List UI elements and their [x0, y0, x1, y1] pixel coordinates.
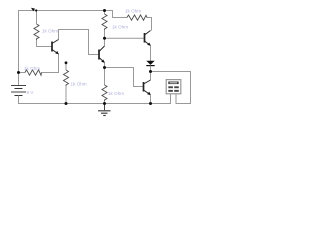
ground [98, 104, 111, 116]
wire: R3 bottom to junction [104, 30, 106, 38]
arrow Q1 emitter [55, 51, 59, 54]
wire: Q2 collector stub [104, 38, 106, 46]
node dot mid junction [103, 37, 106, 40]
wire: top mid jog to R6 [105, 11, 128, 18]
wire: Q3 emitter to diode [150, 46, 152, 62]
svg-text:1k Ohm: 1k Ohm [108, 91, 124, 96]
node dot R4/rail [65, 102, 68, 105]
wire: junction to Q3 base [105, 37, 145, 39]
resistor R1 1k Ohm horizontal [25, 70, 42, 75]
wire: diode to junction [150, 66, 152, 72]
node dot R2/rail/ground [103, 102, 106, 105]
wire: R5 bottom to Q1 base [37, 40, 52, 47]
wire: node to R4 [65, 63, 67, 70]
transistor Q4 [144, 80, 151, 95]
node dot top rail / R3 [103, 9, 106, 12]
arrow Q4 emitter [147, 92, 151, 95]
wire: right loop to speaker right pin [151, 72, 191, 104]
diode D1 [146, 61, 154, 65]
speaker LS1 [166, 80, 181, 94]
wire: Q1 emitter down-left to R1 [42, 54, 59, 73]
battery V1 [11, 86, 26, 96]
wire: emitter node down to R2 [104, 68, 106, 86]
transistor Q1 [52, 40, 59, 55]
node dot Q4 emitter / rail [149, 102, 152, 105]
svg-text:9 V: 9 V [27, 90, 35, 95]
wire: Q4 collector stub [150, 72, 152, 81]
resistor R2 1k Ohm vertical bottom [102, 85, 107, 101]
wire: Q1 collector to Q2 base [59, 30, 99, 55]
wire: Q2 emitter stub [104, 63, 106, 68]
resistor R4 1k Ohm vertical [64, 70, 69, 86]
junction arrow mark at R5 [31, 8, 35, 12]
node: dangling junction dot [65, 61, 68, 64]
svg-text:1k Ohm: 1k Ohm [112, 25, 128, 30]
wire: R2 to rail [104, 101, 106, 104]
node dot diode junction [149, 70, 152, 73]
transistor Q2 [99, 46, 105, 63]
arrow Q2 emitter [101, 60, 105, 63]
wire: R3 top stub [104, 10, 106, 14]
svg-text:1k Ohm: 1k Ohm [71, 81, 87, 86]
wire: battery plus stub to R1 [19, 72, 26, 74]
wire: Q4 emitter to rail [150, 95, 152, 104]
resistor R3 1k Ohm vertical mid [102, 14, 107, 30]
node dot Q2 emitter [103, 66, 106, 69]
arrow Q3 emitter [147, 43, 151, 46]
svg-text:1k Ohm: 1k Ohm [24, 66, 40, 71]
node dot battery/R1 [17, 71, 20, 74]
wire: emitter node to Q4 base [105, 68, 144, 87]
svg-text:1k Ohm: 1k Ohm [42, 29, 58, 34]
wire: left vertical + top rail [19, 11, 105, 86]
wire: R6 right end down to Q3 collector [147, 18, 152, 31]
transistor Q3 [145, 31, 151, 46]
wire: R5 top stub [36, 11, 38, 25]
resistor R5 1k Ohm vertical top-left [34, 24, 39, 40]
resistor R6 1k Ohm horizontal top [127, 15, 147, 20]
svg-text:1k Ohm: 1k Ohm [125, 9, 141, 14]
wire: R4 to bottom rail [65, 86, 67, 104]
wire: battery stem to bottom rail [19, 94, 171, 104]
